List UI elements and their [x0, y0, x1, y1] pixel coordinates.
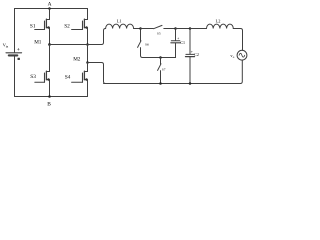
wire bottom rail B bus [15, 96, 88, 98]
wire bottom filter rail [104, 83, 241, 85]
wire M1 to S3 drain [49, 45, 51, 72]
node M2 junction dot [86, 61, 89, 64]
wire left bus upper (Vin+ to rail) [14, 9, 16, 53]
label S3 [30, 74, 36, 80]
inductor L1 [106, 24, 134, 28]
junction dot at (160,57) [159, 56, 162, 59]
capacitor C1 plates [171, 40, 180, 42]
switch S7 blade (vertical) [158, 64, 161, 71]
label S1 [30, 23, 36, 29]
wire L1 to node [134, 28, 141, 30]
label S6 [145, 43, 149, 47]
svg-text:S6: S6 [145, 43, 149, 47]
capacitor C2 bottom lead to bottom rail [189, 57, 191, 83]
node B junction dot [48, 95, 51, 98]
svg-text:in: in [6, 45, 9, 49]
junction dot C1 top [174, 27, 177, 30]
wire rail C1 to C2 [176, 28, 191, 30]
wire to L2 [190, 28, 207, 30]
battery minus mark [18, 58, 20, 60]
battery Vin short thick negative plate [9, 54, 17, 56]
junction dot at (160,83) [159, 82, 162, 85]
junction dot at (189.6,83) [189, 82, 192, 85]
switch S7 upper lead [160, 58, 162, 65]
label A [48, 2, 52, 8]
wire branch at x140 down [140, 29, 142, 42]
wire right leg mid [87, 45, 89, 63]
svg-text:S3: S3 [30, 74, 36, 80]
switch S5 blade (horizontal, on rail) [154, 25, 162, 28]
wire S3 source to node B [49, 80, 51, 97]
AC source vo circle [237, 50, 247, 60]
wire S6 to corner and along y57 [141, 48, 176, 58]
label S5 [157, 31, 161, 35]
battery Vin long positive plate [6, 52, 22, 54]
svg-text:S4: S4 [65, 74, 71, 80]
label S2 [64, 24, 70, 30]
wire S4 source to bottom rail corner [87, 80, 89, 97]
label L1 [117, 19, 122, 24]
label C1 [180, 40, 185, 45]
svg-text:M2: M2 [73, 57, 81, 63]
label L2 [216, 19, 221, 24]
wire S1 source to node M1 [49, 28, 51, 45]
C2 polarity plus [191, 50, 193, 54]
svg-text:+: + [177, 36, 179, 40]
svg-text:C2: C2 [194, 52, 199, 57]
wire to switch S5 [141, 28, 154, 30]
AC source sine wave [239, 53, 245, 57]
label M1 [34, 40, 42, 46]
svg-text:M1: M1 [34, 40, 42, 46]
junction dot S2 source on M1 wire [86, 43, 89, 46]
capacitor C2 plates [186, 53, 194, 55]
battery plus sign [17, 47, 20, 53]
junction dot at L1 output [139, 27, 142, 30]
label C2 [194, 52, 199, 57]
label S4 [65, 74, 71, 80]
wire top rail A bus [15, 8, 88, 10]
C1 polarity plus [177, 36, 179, 40]
wire left bus lower (battery- to bottom rail) [14, 56, 16, 97]
wire node M1 to filter (y44 then up to y28.6) [50, 29, 106, 45]
svg-text:S5: S5 [157, 31, 161, 35]
wire node M2 to filter (y62 right, down to y83) [88, 63, 106, 84]
wire M2 to S4 drain [87, 63, 89, 72]
label M2 [73, 57, 81, 63]
svg-text:A: A [48, 2, 52, 8]
transistor S3 MOSFET [35, 71, 50, 82]
svg-text:B: B [47, 102, 51, 108]
junction dot C2 top [189, 27, 192, 30]
label S7 [162, 68, 166, 72]
svg-text:S2: S2 [64, 24, 70, 30]
svg-text:L2: L2 [216, 19, 221, 24]
svg-text:o: o [233, 55, 235, 59]
wire S2 drain from rail corner [87, 9, 89, 20]
transistor S2 MOSFET [72, 19, 88, 29]
node A junction dot [48, 7, 51, 10]
wire S7 to bottom rail [160, 71, 162, 84]
svg-text:C1: C1 [180, 40, 185, 45]
label vo [230, 53, 234, 59]
svg-text:S7: S7 [162, 68, 166, 72]
label B [47, 102, 51, 108]
inductor L2 [207, 24, 234, 28]
capacitor C2 top lead [189, 29, 191, 54]
svg-text:+: + [17, 47, 20, 53]
switch S6 blade (vertical) [138, 41, 141, 48]
transistor S4 MOSFET [72, 71, 88, 82]
node M1 junction dot [48, 43, 51, 46]
svg-text:+: + [191, 50, 193, 54]
capacitor C1 top lead [175, 29, 177, 41]
wire S2 source down [87, 28, 89, 45]
transistor S1 MOSFET [35, 19, 50, 29]
label Vin [3, 43, 9, 49]
wire AC source to bottom rail [240, 60, 242, 83]
svg-text:L1: L1 [117, 19, 122, 24]
capacitor C1 bottom lead to y57 wire [175, 43, 177, 57]
wire S1 drain from A [49, 9, 51, 20]
wire switch S5 to cap node [164, 28, 176, 30]
svg-text:S1: S1 [30, 23, 36, 29]
wire L2 to right corner down to AC source [233, 29, 242, 51]
